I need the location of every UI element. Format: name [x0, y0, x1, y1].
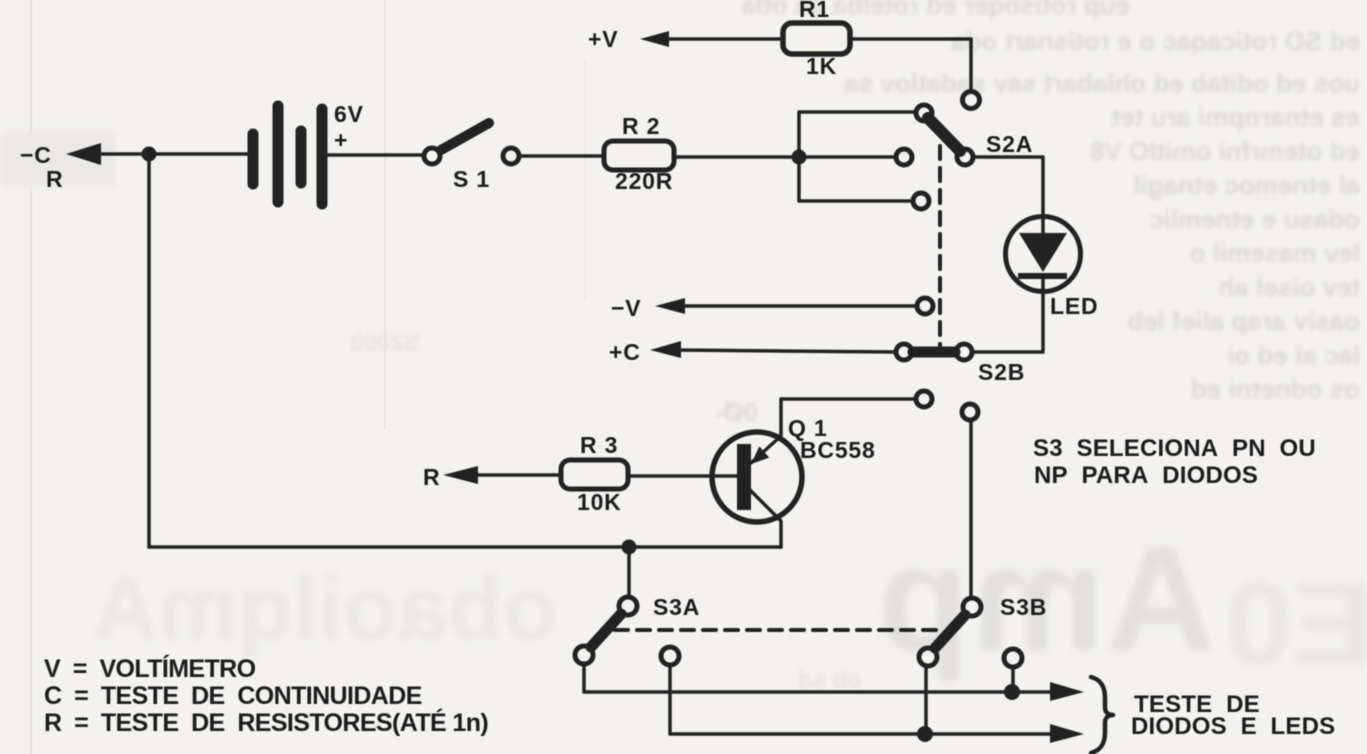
- transistor Q1 base bar: [737, 444, 751, 510]
- contact circle below S2B (to Q1 emitter): [916, 391, 932, 407]
- wire R1 to S2A upper throw: [850, 39, 971, 89]
- battery value 6V and +: [334, 101, 364, 153]
- svg-text:lev masemil o: lev masemil o: [1189, 238, 1360, 268]
- svg-text:oasiv arap alief leb: oasiv arap alief leb: [1127, 306, 1360, 336]
- svg-text:R 3: R 3: [580, 432, 618, 458]
- node junction dot bottom rail: [622, 540, 637, 555]
- arrow to -V terminal: [655, 298, 685, 314]
- svg-text:+C: +C: [609, 339, 641, 365]
- legend V = VOLTIMETRO: [44, 654, 256, 683]
- wire S2B common to LED cathode: [972, 277, 1043, 352]
- svg-text:odasu e etnemlic: odasu e etnemlic: [1149, 204, 1360, 234]
- svg-text:C = TESTE DE CONTINUIDADE: C = TESTE DE CONTINUIDADE: [44, 682, 422, 710]
- svg-text:1K: 1K: [806, 53, 837, 79]
- svg-text:tev oisel ah: tev oisel ah: [1218, 272, 1360, 302]
- contact circle above S3B: [962, 404, 978, 420]
- svg-text:os odnetni ed: os odnetni ed: [1191, 374, 1360, 404]
- label S1: [453, 166, 490, 192]
- wire S1 to R2: [521, 154, 604, 158]
- transistor Q1 emitter arrow (PNP): [751, 446, 769, 464]
- transistor Q1 body: [712, 432, 802, 522]
- svg-text:obaoilqmA: obaoilqmA: [93, 559, 558, 659]
- label S2B: [978, 359, 1025, 385]
- svg-text:R: R: [423, 464, 440, 490]
- wire +V arrow to R1: [663, 37, 783, 41]
- svg-text:V = VOLTÍMETRO: V = VOLTÍMETRO: [44, 654, 256, 683]
- svg-text:R = TESTE DE RESISTORES(AT: R = TESTE DE RESISTORES(ATÉ 1n): [44, 708, 488, 737]
- node +V label: [588, 26, 618, 52]
- node junction dot row 2: [917, 726, 933, 742]
- resistor R1: [783, 23, 850, 54]
- wire S3B left throw drop to row 2: [924, 666, 928, 734]
- switch S2A lever: [928, 118, 960, 151]
- switch S3A throw contacts: [575, 646, 593, 664]
- wire R arrow to R3: [467, 473, 561, 477]
- svg-text:+V: +V: [588, 26, 618, 52]
- switch S2B lever: [913, 347, 955, 358]
- wire battery negative to -C arrow: [95, 152, 248, 156]
- wire S3A right throw to output row 2: [670, 665, 1052, 734]
- svg-text:E0: E0: [1225, 557, 1367, 691]
- svg-text:220R: 220R: [615, 168, 673, 194]
- label S2A: [986, 131, 1033, 157]
- arrow output row 1: [1050, 682, 1084, 701]
- wire left rail vertical: [147, 154, 151, 547]
- dashed gang line S3A-S3B: [615, 628, 936, 632]
- wire R3 to Q1 base: [628, 474, 737, 478]
- svg-text:S2B: S2B: [978, 359, 1025, 385]
- switch S3A common contact: [619, 597, 637, 615]
- svg-text:S2A: S2A: [986, 131, 1033, 157]
- switch S3B throw contacts: [919, 648, 937, 666]
- label R3: [577, 432, 622, 515]
- wire junction to S3A common: [627, 547, 631, 597]
- node -V label: [611, 295, 641, 321]
- arrow to -C/R terminal: [66, 143, 101, 165]
- svg-text:LED: LED: [1050, 293, 1098, 319]
- svg-text:es etnaropmi aru tet: es etnaropmi aru tet: [1111, 102, 1360, 132]
- contact circle upper throw of S2A: [963, 92, 980, 109]
- svg-text:ed otemrfni omitlO V8: ed otemrfni omitlO V8: [1090, 136, 1360, 166]
- wire junction to S2A bottom contact: [799, 157, 913, 201]
- svg-text:R1: R1: [799, 0, 830, 22]
- arrow to +C terminal: [650, 341, 681, 358]
- svg-text:DIODOS E LEDS: DIODOS E LEDS: [1131, 713, 1335, 740]
- wire junction to S2A middle contact: [799, 155, 896, 159]
- wire bottom rail: [149, 545, 781, 549]
- wire battery to S1: [328, 153, 423, 157]
- node junction dot after R2: [792, 150, 807, 165]
- switch S3A lever: [591, 614, 621, 647]
- battery B1 6V: [253, 106, 322, 204]
- svg-text:R: R: [46, 166, 63, 192]
- svg-text:S3A: S3A: [653, 594, 700, 620]
- svg-text:10K: 10K: [577, 489, 622, 515]
- svg-text:R 2: R 2: [622, 113, 660, 139]
- switch S2B contact: [896, 344, 912, 360]
- wire S3B right throw drop to row 1: [1011, 667, 1015, 692]
- node junction dot left rail: [142, 147, 157, 162]
- arrow to +V terminal: [640, 31, 669, 47]
- svg-text:uos ed oditab ed ohlabart sav: uos ed oditab ed ohlabart sav sadatlov s…: [844, 68, 1360, 98]
- svg-text:ed SO roticaqac o e rotisnart: ed SO roticaqac o e rotisnart oda: [951, 26, 1360, 56]
- label Q1: [788, 415, 876, 463]
- svg-text:BC558: BC558: [800, 437, 876, 463]
- wire S2A common to LED anode: [973, 157, 1043, 234]
- svg-text:lac al ed oi: lac al ed oi: [1227, 340, 1360, 370]
- wire Q1 collector: [750, 490, 781, 547]
- label S3B: [1000, 594, 1047, 620]
- svg-text:−C: −C: [20, 142, 52, 168]
- svg-text:NP PARA DIODOS: NP PARA DIODOS: [1034, 462, 1258, 489]
- svg-text:S 1: S 1: [453, 166, 490, 192]
- switch S2A contacts: [916, 105, 932, 121]
- label R2: [615, 113, 673, 194]
- svg-text:ob sd: ob sd: [798, 667, 862, 694]
- svg-text:S2000: S2000: [351, 329, 420, 356]
- legend R = TESTE DE RESISTORES: [44, 708, 488, 737]
- svg-text:−V: −V: [611, 295, 641, 321]
- legend C = TESTE DE CONTINUIDADE: [44, 682, 422, 710]
- label R1: [799, 0, 837, 79]
- node -C / R label: [20, 142, 63, 192]
- node R label: [423, 464, 440, 490]
- contact circle -V throw: [917, 298, 933, 314]
- resistor R2: [604, 141, 674, 170]
- dashed gang line S2A-S2B: [938, 146, 942, 350]
- svg-text:0Ø-: 0Ø-: [715, 397, 758, 427]
- resistor R3: [561, 460, 628, 489]
- svg-text:al etnemoc etnagil: al etnemoc etnagil: [1133, 170, 1360, 200]
- wire +C arrow to S2B contact: [674, 350, 896, 352]
- label TESTE DE DIODOS E LEDS: [1131, 691, 1335, 740]
- LED D1: [1006, 217, 1081, 292]
- wire contact down to S3B common: [969, 420, 973, 598]
- wire contact to Q1 emitter: [751, 399, 915, 463]
- svg-text:6V: 6V: [334, 101, 364, 127]
- arrow output row 2: [1050, 724, 1084, 743]
- switch S1: [424, 123, 519, 164]
- switch S2B common contact: [956, 344, 972, 360]
- switch S3B lever: [935, 615, 965, 648]
- wire junction to S2A top contact: [799, 112, 916, 157]
- note S3 SELECIONA PN OU NP PARA DIODOS: [1033, 435, 1316, 489]
- wire -V arrow to S2B throw: [679, 304, 916, 308]
- node junction dot row 1: [1004, 684, 1020, 700]
- wire R2 to junction: [674, 155, 799, 159]
- wire S3A left throw to output row 1: [584, 664, 1052, 692]
- svg-text:S3B: S3B: [1000, 594, 1047, 620]
- node +C label: [609, 339, 641, 365]
- arrow to R terminal: [443, 466, 478, 484]
- switch S3B common contact: [963, 598, 981, 616]
- label LED: [1050, 293, 1098, 319]
- svg-text:S3 SELECIONA PN OU: S3 SELECIONA PN OU: [1033, 435, 1316, 462]
- label S3A: [653, 594, 700, 620]
- svg-text:+: +: [334, 127, 348, 153]
- brace test outputs: [1091, 677, 1113, 753]
